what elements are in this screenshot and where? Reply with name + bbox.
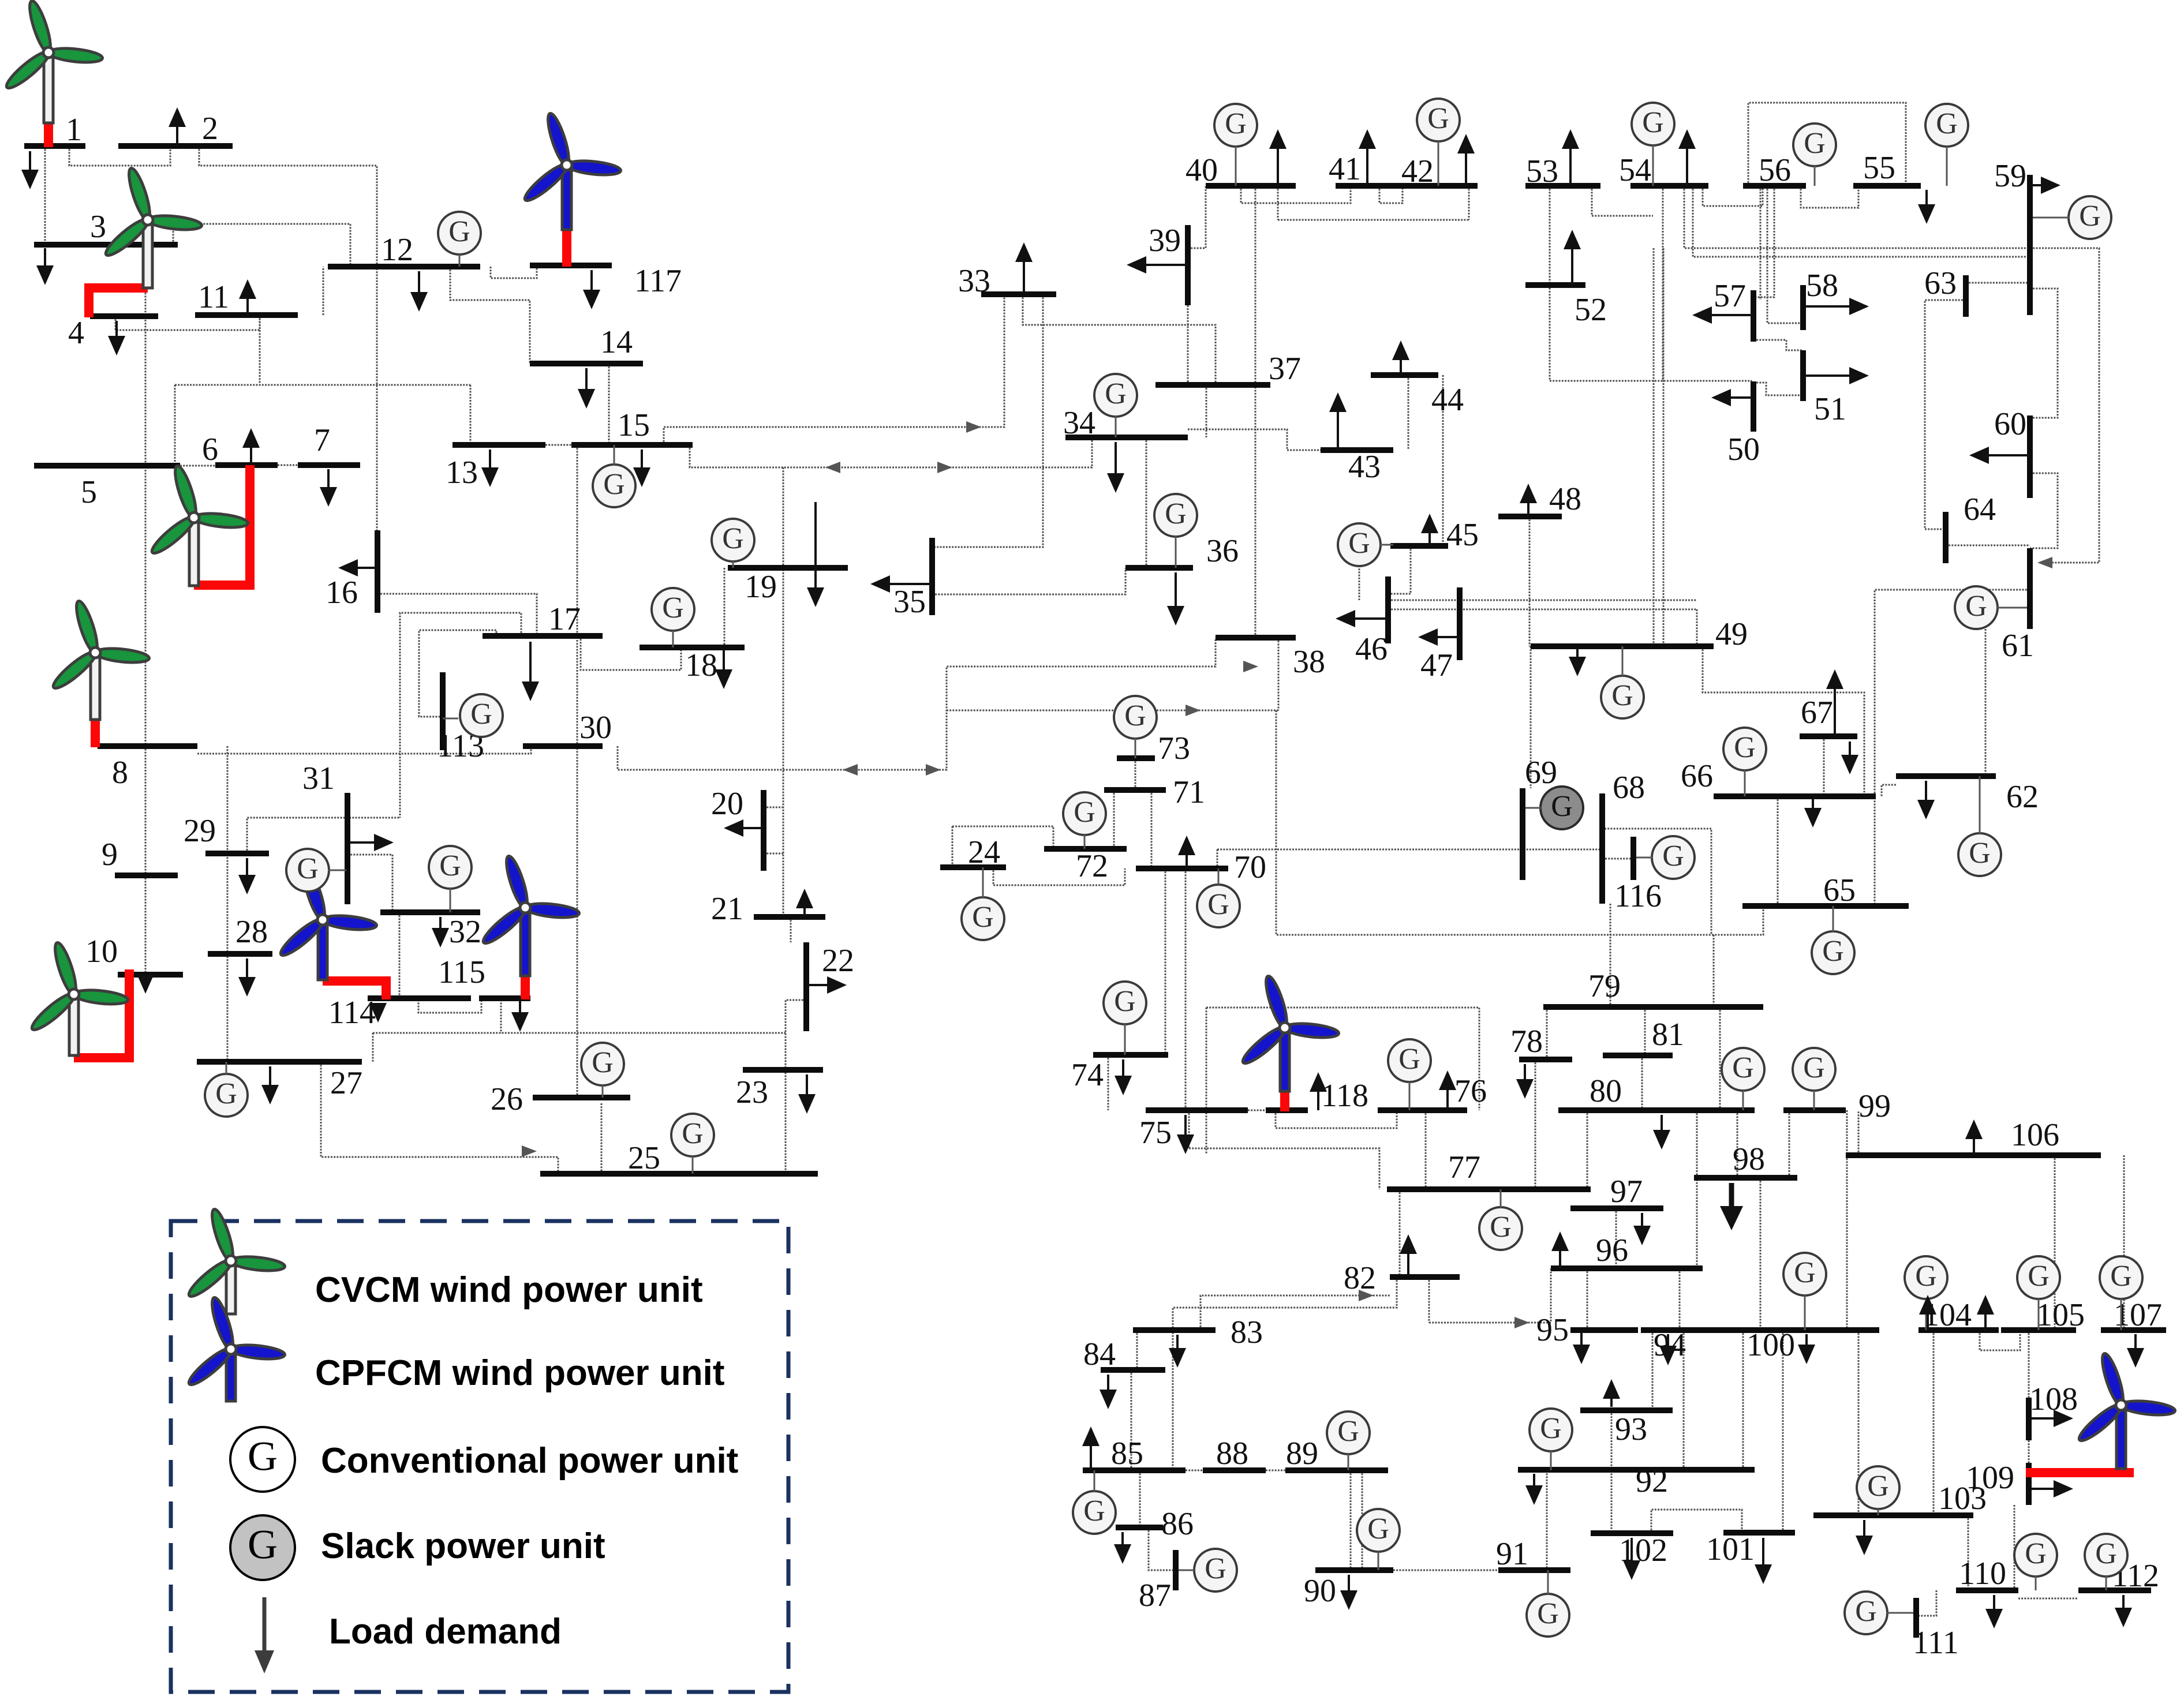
bus 62 [1896, 773, 1996, 779]
wire 27 riser [372, 1033, 374, 1062]
svg-text:23: 23 [736, 1074, 768, 1110]
label bus 13 [446, 455, 478, 490]
label bus 113 [437, 728, 484, 764]
bus 1 [24, 143, 85, 149]
label bus 55 [1863, 150, 1895, 186]
wire 79-80 [1719, 1007, 1721, 1110]
svg-text:5: 5 [81, 474, 97, 510]
load arrow v67 [1082, 1426, 1100, 1470]
generator stem 13 [1218, 868, 1220, 885]
bus 116 [1630, 837, 1636, 880]
wire 53-54 [1592, 186, 1653, 216]
wire 11-12 [323, 267, 324, 315]
wire 59-60 loop [2030, 289, 2058, 418]
generator G at bus 27 [205, 1074, 248, 1117]
svg-text:75: 75 [1139, 1115, 1172, 1151]
wire 77-78 [1535, 1059, 1536, 1189]
svg-text:115: 115 [438, 954, 485, 990]
label bus 107 [2114, 1297, 2162, 1333]
svg-text:81: 81 [1652, 1017, 1684, 1053]
label bus 86 [1161, 1506, 1194, 1542]
bus 42 [1388, 183, 1478, 189]
bus 74 [1093, 1052, 1168, 1058]
label bus 66 [1681, 758, 1713, 794]
wire 2-12-16 [199, 146, 377, 530]
wire arrowhead 0 [843, 764, 858, 776]
svg-text:56: 56 [1759, 152, 1791, 188]
svg-text:G: G [1734, 731, 1756, 764]
wire G45 stem2 [1359, 566, 1360, 600]
generator stem 18 [1348, 1454, 1349, 1470]
bus 79 [1543, 1004, 1763, 1010]
wire 5-11-13 [175, 384, 470, 386]
load arrow v3 [410, 271, 428, 312]
generator stem 28 [2035, 1576, 2037, 1590]
bus 68 [1599, 793, 1605, 904]
bus 28 [208, 951, 272, 957]
label bus 28 [235, 914, 268, 950]
generator stem 5 [328, 870, 346, 871]
label bus 75 [1139, 1115, 1172, 1151]
wire 85-88 [1186, 1470, 1203, 1471]
load arrow v28 [1516, 1064, 1534, 1099]
label bus 35 [893, 584, 926, 620]
wire 54-52corr [1662, 186, 1664, 381]
generator stem 15 [1500, 1189, 1502, 1208]
svg-text:G: G [215, 1077, 237, 1110]
load arrow v13 [238, 858, 256, 894]
generator G at bus 73 [1114, 696, 1157, 739]
load arrow v25 [1804, 799, 1822, 827]
load arrow h8 [1969, 447, 2030, 464]
wire 39-37 [1187, 305, 1189, 385]
wire 19-34 [690, 437, 1092, 467]
svg-text:100: 100 [1747, 1327, 1795, 1363]
svg-text:G: G [2110, 1260, 2132, 1293]
generator stem 12 [1135, 738, 1136, 758]
svg-text:1: 1 [66, 112, 82, 148]
wire 22-25 [786, 1000, 806, 1173]
label bus 84 [1083, 1336, 1116, 1372]
svg-text:118: 118 [1321, 1078, 1368, 1114]
wire 32-114 [399, 912, 401, 997]
svg-text:G: G [1803, 1051, 1825, 1084]
bus 55 [1853, 183, 1921, 189]
bus 30 [523, 743, 603, 749]
svg-text:G: G [1794, 1256, 1816, 1289]
label bus 102 [1619, 1533, 1667, 1568]
svg-text:G: G [1642, 106, 1664, 139]
svg-text:70: 70 [1234, 849, 1266, 885]
svg-text:41: 41 [1329, 151, 1361, 187]
load arrow v5 [578, 368, 595, 409]
svg-text:26: 26 [491, 1081, 523, 1117]
wire 29-31 [247, 818, 400, 853]
label bus 76 [1454, 1073, 1487, 1109]
wire 79-78 [1546, 1007, 1548, 1059]
wire 82-96 [1429, 1268, 1551, 1323]
wire 72-71 [1113, 790, 1115, 849]
svg-text:80: 80 [1590, 1073, 1622, 1109]
load arrow v64 [1310, 1072, 1327, 1110]
load arrow v47 [239, 279, 256, 315]
svg-text:71: 71 [1173, 774, 1205, 810]
svg-text:66: 66 [1681, 758, 1713, 794]
bus 34 [1065, 435, 1188, 440]
generator G at bus 42 [1417, 99, 1460, 141]
load arrow v2 [108, 321, 125, 355]
bus 90 [1315, 1567, 1393, 1573]
bus 70 [1136, 866, 1228, 871]
wire 54 corr a [1684, 186, 2099, 563]
wire 82 riser96 [1428, 1277, 1430, 1323]
load arrow v7 [481, 450, 499, 487]
label bus 50 [1727, 432, 1760, 467]
wire arrowhead 2 [825, 462, 840, 473]
wire 54-56 [1703, 186, 1763, 206]
svg-text:G: G [1205, 1552, 1226, 1585]
load arrow v39 [1114, 1532, 1131, 1564]
load arrow v10 [715, 650, 732, 689]
bus 16 [375, 530, 380, 613]
generator G at bus 40 [1214, 104, 1257, 147]
label bus 5 [81, 474, 97, 510]
wire 61-62 [1985, 629, 1987, 776]
bus 105 [2001, 1327, 2076, 1333]
wire 40-42 corr [1278, 219, 1469, 221]
svg-text:G: G [1662, 840, 1684, 873]
label bus 63 [1924, 265, 1957, 301]
generator G at bus 111 [1845, 1592, 1887, 1634]
label bus 20 [711, 786, 743, 822]
wire 56-58a [1760, 186, 1762, 300]
svg-text:G: G [1165, 497, 1187, 530]
label bus 40 [1186, 152, 1218, 188]
bus 99 [1783, 1107, 1846, 1113]
wire 114-115 [418, 997, 481, 1013]
label bus 67 [1801, 695, 1833, 731]
load arrow v59 [1269, 129, 1287, 186]
bus 65 [1742, 903, 1909, 909]
load arrow v14 [238, 958, 256, 997]
bus 56 [1743, 183, 1806, 189]
bus 36 [1125, 565, 1193, 571]
wire arrowhead 3 [937, 462, 952, 473]
svg-text:G: G [1367, 1512, 1389, 1545]
label bus 6 [202, 432, 218, 467]
label bus 77 [1448, 1149, 1480, 1185]
wind turbine CPFCM unit bus 118 [1239, 974, 1340, 1111]
wire 41-42 [1379, 186, 1403, 203]
load arrow v29 [1653, 1115, 1670, 1149]
wire 96-97 [1615, 1208, 1617, 1268]
label bus 31 [302, 761, 335, 796]
generator G at bus 89 [1327, 1411, 1370, 1454]
generator G at bus 85 [1073, 1491, 1116, 1534]
svg-text:48: 48 [1549, 481, 1581, 517]
wire 11 riser [259, 315, 261, 385]
bus 41 [1336, 183, 1393, 189]
bus 25 [540, 1171, 818, 1177]
generator stem 30 [1887, 1612, 1913, 1614]
wire 53-52-50 [1550, 186, 1751, 381]
bus 22 [803, 942, 809, 1031]
label bus 95 [1536, 1312, 1569, 1348]
generator G at bus 65 [1812, 931, 1854, 974]
wire 19-21 [783, 467, 784, 917]
wire 20 hook a [764, 807, 783, 808]
generator stem 48 [1813, 1090, 1815, 1110]
svg-text:101: 101 [1706, 1532, 1755, 1567]
label bus 10 [85, 934, 118, 969]
generator stem 34 [1814, 166, 1816, 186]
bus 38 [1216, 635, 1296, 641]
wire 20 hook b [764, 853, 783, 855]
wire 15-17-30-26 [577, 445, 578, 1100]
bus 69 [1520, 788, 1525, 880]
svg-text:72: 72 [1076, 848, 1108, 884]
generator stem 7 [226, 1062, 227, 1074]
label bus 36 [1206, 533, 1239, 569]
wire 3-12 [173, 224, 350, 267]
wire 21-22 [790, 917, 792, 942]
svg-text:G: G [1074, 796, 1095, 829]
svg-text:15: 15 [618, 407, 650, 443]
load arrow v34 [2127, 1334, 2144, 1368]
bus 47 [1457, 587, 1463, 660]
svg-text:44: 44 [1431, 382, 1464, 418]
label bus 14 [600, 324, 633, 360]
label bus 116 [1614, 878, 1662, 914]
label bus 112 [2112, 1558, 2159, 1594]
generator G at bus 55 [1925, 104, 1968, 147]
svg-text:91: 91 [1496, 1536, 1528, 1572]
label bus 15 [618, 407, 650, 443]
wire arrowhead 9 [2037, 557, 2052, 568]
bus 18 [640, 645, 745, 650]
label bus 41 [1329, 151, 1361, 187]
wire 91-92 [1546, 1470, 1548, 1570]
generator G at bus 66 [1723, 728, 1766, 770]
svg-text:27: 27 [330, 1065, 362, 1101]
bus 29 [205, 851, 269, 856]
label bus 51 [1814, 391, 1846, 427]
svg-text:G: G [1611, 679, 1633, 712]
wind turbine CPFCM unit bus 115 [480, 854, 580, 999]
wire 33-35 [932, 294, 1043, 547]
wire 16-17 [377, 594, 537, 636]
wire 113-17 [419, 630, 496, 717]
svg-text:42: 42 [1401, 153, 1434, 189]
generator stem 27 [1878, 1508, 1879, 1515]
load arrow v52 [1392, 340, 1409, 375]
wire 81-80 [1641, 1055, 1643, 1110]
bus 32 [380, 909, 480, 915]
label bus 71 [1173, 774, 1205, 810]
label bus 68 [1613, 770, 1645, 806]
generator stem 2 [672, 630, 674, 647]
svg-text:59: 59 [1994, 158, 2026, 194]
svg-text:111: 111 [1913, 1625, 1959, 1661]
bus 100 [1733, 1327, 1879, 1333]
wire 31-32 [347, 855, 392, 912]
label bus 99 [1858, 1088, 1891, 1124]
label bus 93 [1615, 1411, 1647, 1447]
bus 67 [1800, 733, 1857, 739]
generator stem 4 [443, 718, 458, 720]
generator stem 9 [692, 1156, 694, 1174]
wire 68 loop [1605, 829, 1711, 935]
wire 56-55 [1801, 186, 1858, 208]
label bus 24 [968, 834, 1000, 870]
label bus 52 [1575, 292, 1607, 328]
label bus 69 [1525, 755, 1557, 791]
wire 14-15 [608, 364, 610, 445]
bus 97 [1570, 1205, 1663, 1211]
generator stem 42 [1380, 544, 1393, 546]
generator stem 21 [1547, 1570, 1549, 1594]
wire 80-98 [1737, 1110, 1738, 1178]
generator G at bus 77 [1479, 1207, 1522, 1250]
label bus 100 [1747, 1327, 1795, 1363]
load arrow h6 [1692, 306, 1753, 324]
generator stem 33 [1652, 145, 1654, 186]
generator stem 36 [2033, 217, 2069, 219]
wire 30-38 [618, 638, 1216, 770]
bus 110 [1956, 1587, 2018, 1593]
wire 56-55 loop [1748, 103, 1906, 186]
generator stem 14 [1124, 1024, 1126, 1055]
label bus 98 [1733, 1141, 1765, 1177]
svg-text:105: 105 [2036, 1297, 2085, 1333]
label bus 92 [1636, 1463, 1668, 1499]
label bus 64 [1964, 492, 1996, 527]
wire 66-79 [1713, 935, 1715, 1007]
svg-text:Load demand: Load demand [329, 1612, 562, 1652]
generator G at bus 113 [460, 694, 503, 737]
generator G at bus 61 [1955, 586, 1998, 629]
label bus 8 [112, 755, 128, 791]
load arrow h10 [350, 834, 394, 851]
bus 104 [1919, 1327, 1999, 1333]
svg-text:109: 109 [1966, 1460, 2014, 1496]
bus 48 [1498, 514, 1562, 519]
svg-text:68: 68 [1613, 770, 1645, 806]
wire 68-116 [1605, 858, 1631, 860]
svg-text:11: 11 [198, 279, 229, 315]
wire 70-74 [1165, 868, 1166, 1055]
label bus 118 [1321, 1078, 1368, 1114]
bus 117 [530, 263, 612, 268]
wire 90-91 [1393, 1570, 1498, 1571]
wire 15-33 [664, 294, 1004, 445]
wire 46-47-49a [1388, 600, 1697, 601]
svg-text:22: 22 [822, 943, 854, 979]
bus 54 [1630, 183, 1708, 189]
bus 86 [1116, 1525, 1163, 1530]
label bus 85 [1111, 1436, 1143, 1471]
wire 57-51 [1753, 340, 1803, 350]
load arrow v71 [1965, 1119, 1983, 1155]
load arrow v41 [1985, 1595, 2003, 1628]
svg-text:G: G [1207, 888, 1229, 921]
load arrow v37 [1755, 1538, 1772, 1584]
svg-text:4: 4 [68, 315, 84, 351]
load arrow v27 [1177, 1115, 1194, 1154]
generator stem 10 [982, 867, 984, 898]
svg-text:45: 45 [1446, 517, 1479, 553]
label bus 60 [1994, 406, 2026, 442]
bus 96 [1551, 1265, 1703, 1271]
svg-text:64: 64 [1964, 492, 1996, 527]
svg-text:18: 18 [685, 647, 717, 683]
bus 11 [195, 312, 298, 318]
svg-text:CPFCM wind power unit: CPFCM wind power unit [315, 1353, 725, 1393]
wire 48-49 [1529, 516, 1531, 646]
wire 75-118 [1248, 1110, 1266, 1111]
generator G at bus 15 [593, 465, 635, 507]
svg-text:G: G [439, 849, 461, 882]
generator G at bus 99 [1793, 1048, 1835, 1091]
generator stem 11 [1084, 834, 1086, 849]
load arrow h1 [724, 819, 762, 837]
wire 65-66 [1777, 796, 1779, 906]
wire 38 riser [1278, 638, 1280, 710]
label bus 53 [1526, 153, 1558, 189]
load arrow h11 [1805, 298, 1869, 315]
wire 75-77 riser [1188, 1110, 1190, 1148]
label bus 81 [1652, 1017, 1684, 1053]
svg-text:67: 67 [1801, 695, 1833, 731]
svg-text:G: G [2028, 1260, 2050, 1293]
label bus 29 [184, 813, 216, 849]
bus 109 [2026, 1463, 2032, 1505]
svg-text:87: 87 [1139, 1578, 1171, 1613]
label bus 9 [102, 837, 118, 873]
wind turbine CVCM unit bus 10 [28, 941, 129, 1058]
label bus 82 [1344, 1260, 1376, 1296]
label bus 45 [1446, 517, 1479, 553]
wire 5 riser [174, 385, 176, 466]
svg-text:73: 73 [1158, 731, 1190, 766]
label bus 3 [90, 209, 106, 245]
bus 10 [118, 972, 183, 978]
generator G at bus 107 [2100, 1256, 2142, 1299]
load arrow v46 [169, 107, 186, 146]
wire 39-40 [1188, 186, 1206, 248]
label bus 23 [736, 1074, 768, 1110]
svg-text:60: 60 [1994, 406, 2026, 442]
bus 84 [1101, 1367, 1165, 1373]
svg-text:CVCM wind power unit: CVCM wind power unit [315, 1270, 703, 1310]
label bus 32 [449, 914, 481, 950]
svg-text:G: G [2079, 200, 2101, 233]
load arrow v35 [1856, 1520, 1873, 1555]
bus 111 [1913, 1598, 1919, 1638]
generator G at bus 34 [1094, 374, 1137, 417]
generator stem 17 [1094, 1470, 1095, 1492]
wire arrowhead 6 [1359, 1290, 1374, 1301]
wire 77-82 [1399, 1189, 1401, 1277]
label bus 65 [1823, 873, 1856, 908]
label bus 117 [634, 263, 682, 299]
load arrow v15 [137, 974, 154, 994]
wire 23-32 corr [373, 1032, 786, 1034]
label bus 104 [1923, 1297, 1972, 1333]
load arrow v54 [1520, 484, 1537, 516]
label bus 62 [2006, 779, 2039, 815]
bus 43 [1321, 447, 1393, 453]
